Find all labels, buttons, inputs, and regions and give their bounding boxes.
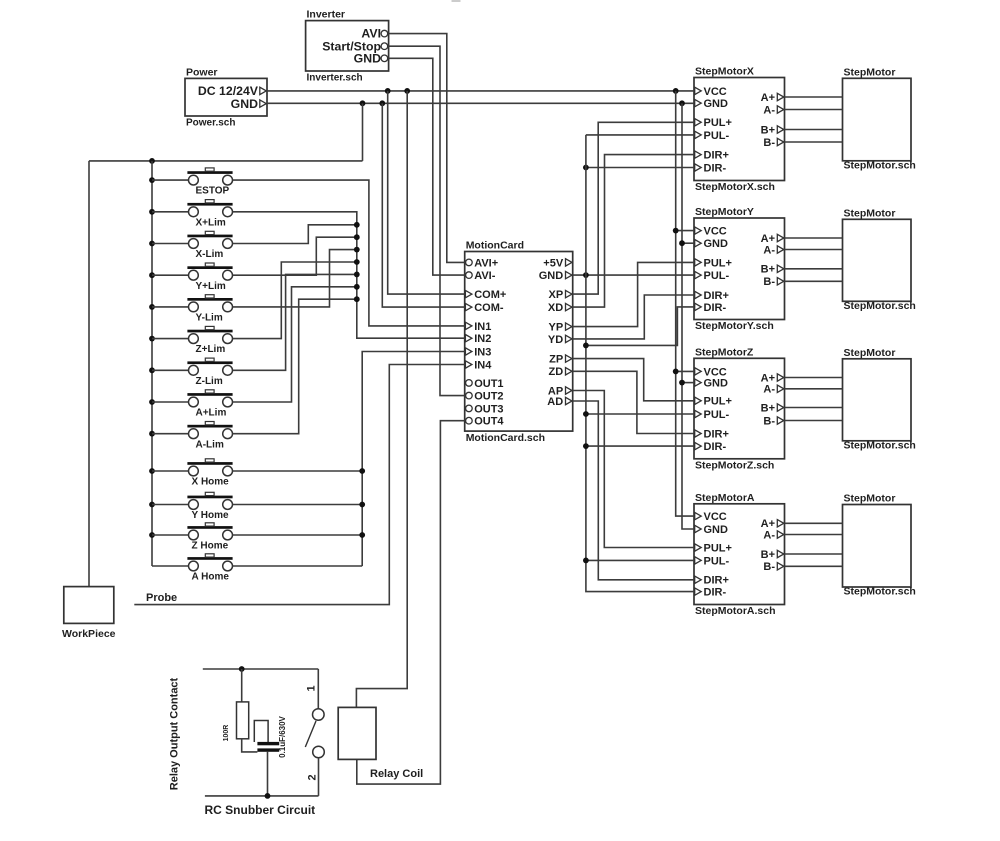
svg-text:A+: A+ xyxy=(761,233,775,245)
svg-text:AVI+: AVI+ xyxy=(474,257,498,269)
wire A Home left lead xyxy=(152,565,188,567)
stepper driver StepMotorY box xyxy=(694,218,785,320)
wire wire driverZ A- to motor xyxy=(785,388,843,390)
junction limit bus tap Z+Lim xyxy=(354,259,360,265)
wire A-Lim to limit bus xyxy=(233,299,357,434)
wire contact top rail xyxy=(203,668,318,670)
svg-text:StepMotor: StepMotor xyxy=(844,207,896,219)
svg-text:Y+Lim: Y+Lim xyxy=(196,281,226,292)
junction GND bus tap Y DIR- xyxy=(583,343,589,349)
wire ESTOP to IN1 xyxy=(233,180,465,326)
svg-text:OUT1: OUT1 xyxy=(474,378,503,390)
wire left drop to WorkPiece xyxy=(88,161,90,587)
svg-text:A-: A- xyxy=(763,244,775,256)
pin MotionCard pin IN1 xyxy=(465,322,472,329)
wire wire driverX A- to motor xyxy=(785,109,843,111)
wire A-Lim left lead xyxy=(152,433,188,435)
pin StepMotorA pin PUL+ xyxy=(695,544,702,551)
pin StepMotorZ pin GND xyxy=(695,379,702,386)
svg-text:AD: AD xyxy=(547,396,563,408)
svg-text:VCC: VCC xyxy=(704,226,727,238)
svg-text:Power: Power xyxy=(186,67,218,79)
wire Z+Lim to limit bus xyxy=(233,262,357,339)
junction GND bus tap Z PUL- xyxy=(583,411,589,417)
svg-text:Power.sch: Power.sch xyxy=(186,118,235,129)
junction GND bus tap A PUL- xyxy=(583,558,589,564)
wire X Home left lead xyxy=(152,470,188,472)
junction GND bus tap Z GND xyxy=(679,380,685,386)
wire Y Home left lead xyxy=(152,504,188,506)
pin MotionCard pin XD xyxy=(566,303,573,310)
wire GND to X PUL- xyxy=(586,134,694,136)
svg-text:StepMotor.sch: StepMotor.sch xyxy=(844,586,916,598)
wire capacitor bottom lead xyxy=(267,752,269,796)
wire resistor top lead xyxy=(241,669,243,702)
wire Z-Lim left lead xyxy=(152,369,188,371)
wire GND to Z DIR- xyxy=(586,445,694,447)
pin StepMotorX pin VCC xyxy=(695,87,702,94)
pin StepMotorY pin PUL+ xyxy=(695,259,702,266)
wire Y Home to home bus xyxy=(233,504,363,506)
junction left bus tap y=402.0 xyxy=(149,399,155,405)
relay coil box xyxy=(338,707,376,759)
wire GND to A PUL- xyxy=(586,559,694,561)
junction home bus tap Y Home xyxy=(359,502,365,508)
capacitor 0.1uF/630V body xyxy=(254,721,268,743)
pin StepMotorA pin PUL- xyxy=(695,557,702,564)
pin StepMotorZ pin DIR- xyxy=(695,442,702,449)
wire XD to X DIR+ xyxy=(573,155,694,308)
wire +V to relay coil top xyxy=(356,91,407,708)
svg-text:XD: XD xyxy=(548,302,563,314)
junction left bus tap y=211.8 xyxy=(149,209,155,215)
junction limit bus tap A+Lim xyxy=(354,284,360,290)
wire YD to Y DIR+ xyxy=(573,295,694,339)
wire contact lead 2 xyxy=(318,758,320,796)
switch X-Lim body xyxy=(189,239,199,249)
junction +V rail to COM+ xyxy=(385,88,391,94)
wire A+Lim left lead xyxy=(152,401,188,403)
junction GND bus tap Z DIR- xyxy=(583,443,589,449)
wire +V bus to A VCC xyxy=(676,91,694,516)
pin MotionCard pin ZP xyxy=(566,355,573,362)
top edge artifact xyxy=(452,0,461,2)
svg-text:Z-Lim: Z-Lim xyxy=(196,376,223,387)
wire ESTOP left lead xyxy=(152,179,188,181)
wire wire driverY B- to motor xyxy=(785,280,843,282)
svg-text:DIR-: DIR- xyxy=(704,302,727,314)
pin StepMotorY pin A+ xyxy=(777,234,784,241)
svg-text:0.1uF/630V: 0.1uF/630V xyxy=(278,715,287,757)
contact blade xyxy=(305,721,316,747)
wire A+Lim to limit bus xyxy=(233,287,357,402)
svg-text:PUL+: PUL+ xyxy=(704,396,732,408)
wire GND to Y DIR- xyxy=(586,307,694,346)
wire AVI to AVI+ xyxy=(389,34,465,263)
pin MotionCard pin YP xyxy=(566,323,573,330)
switch X Home body xyxy=(189,466,199,476)
pin StepMotorZ pin A- xyxy=(777,385,784,392)
wire Z Home left lead xyxy=(152,534,188,536)
wire YP to Y PUL+ xyxy=(573,262,694,326)
svg-text:AVI-: AVI- xyxy=(474,270,496,282)
wire wire driverY A+ to motor xyxy=(785,237,843,239)
pin MotionCard pin OUT3 xyxy=(466,405,473,412)
wire wire driverY B+ to motor xyxy=(785,268,843,270)
svg-text:A-: A- xyxy=(763,104,775,116)
svg-text:B-: B- xyxy=(763,415,775,427)
svg-text:DIR+: DIR+ xyxy=(704,290,729,302)
pin StepMotorZ pin A+ xyxy=(777,374,784,381)
svg-text:PUL+: PUL+ xyxy=(704,117,732,129)
pin MotionCard pin AD xyxy=(566,397,573,404)
pin MotionCard pin IN4 xyxy=(465,361,472,368)
svg-text:ESTOP: ESTOP xyxy=(196,186,230,197)
junction limit bus tap A-Lim xyxy=(354,296,360,302)
svg-text:StepMotorY: StepMotorY xyxy=(695,206,754,218)
svg-text:StepMotor: StepMotor xyxy=(844,66,896,78)
svg-text:A-: A- xyxy=(763,384,775,396)
svg-text:GND: GND xyxy=(704,524,729,536)
svg-text:GND: GND xyxy=(539,270,564,282)
svg-text:YP: YP xyxy=(549,322,564,334)
pin StepMotorY pin DIR- xyxy=(695,303,702,310)
wire wire driverY A- to motor xyxy=(785,249,843,251)
pin StepMotorY pin B- xyxy=(777,278,784,285)
pin MotionCard pin XP xyxy=(566,290,573,297)
svg-text:X+Lim: X+Lim xyxy=(196,217,226,228)
svg-text:DIR+: DIR+ xyxy=(704,428,729,440)
svg-text:COM-: COM- xyxy=(474,302,504,314)
pin StepMotorZ pin PUL- xyxy=(695,410,702,417)
switch Z-Lim body xyxy=(189,365,199,375)
svg-text:PUL-: PUL- xyxy=(704,409,730,421)
pin StepMotorX pin DIR+ xyxy=(695,151,702,158)
junction left bus tap y=471.0 xyxy=(149,468,155,474)
junction +V rail to relay coil xyxy=(404,88,410,94)
wire GND distribution bus / A DIR- xyxy=(586,135,694,592)
junction GND rail to COM- xyxy=(379,100,385,106)
pin StepMotorA pin B+ xyxy=(777,550,784,557)
switch Y+Lim body xyxy=(189,270,199,280)
pin MotionCard pin OUT4 xyxy=(466,417,473,424)
pin Inverter pin GND xyxy=(381,55,388,62)
svg-text:DIR+: DIR+ xyxy=(704,150,729,162)
svg-text:A-: A- xyxy=(763,529,775,541)
svg-text:B-: B- xyxy=(763,137,775,149)
pin StepMotorY pin GND xyxy=(695,240,702,247)
svg-text:IN2: IN2 xyxy=(474,333,491,345)
wire wire driverZ B+ to motor xyxy=(785,407,843,409)
wire wire driverA B- to motor xyxy=(785,565,843,567)
wire Z-Lim to limit bus xyxy=(233,274,357,370)
svg-text:StepMotorY.sch: StepMotorY.sch xyxy=(695,320,774,332)
junction left bus tap y=275.2 xyxy=(149,272,155,278)
wire contact bottom rail xyxy=(205,795,319,797)
svg-text:StepMotor: StepMotor xyxy=(844,347,896,359)
svg-text:PUL-: PUL- xyxy=(704,270,730,282)
pin StepMotorA pin B- xyxy=(777,563,784,570)
wire Y-Lim left lead xyxy=(152,306,188,308)
svg-text:Relay Output Contact: Relay Output Contact xyxy=(169,677,181,790)
wire wire driverZ B- to motor xyxy=(785,420,843,422)
svg-text:ZD: ZD xyxy=(549,366,564,378)
svg-text:StepMotorX.sch: StepMotorX.sch xyxy=(695,181,775,193)
svg-text:PUL-: PUL- xyxy=(704,555,730,567)
contact terminal circle 2 xyxy=(313,746,325,758)
svg-text:PUL-: PUL- xyxy=(704,130,730,142)
svg-text:IN1: IN1 xyxy=(474,321,491,333)
svg-text:WorkPiece: WorkPiece xyxy=(62,628,116,640)
pin StepMotorX pin PUL- xyxy=(695,131,702,138)
svg-text:MotionCard.sch: MotionCard.sch xyxy=(466,432,545,444)
svg-text:A+: A+ xyxy=(761,372,775,384)
wire GND to COM- xyxy=(382,103,464,307)
pin MotionCard pin COM+ xyxy=(465,290,472,297)
pin StepMotorX pin A- xyxy=(777,106,784,113)
svg-text:Probe: Probe xyxy=(146,592,177,604)
controller MotionCard box xyxy=(465,252,573,432)
svg-text:DIR-: DIR- xyxy=(704,441,727,453)
junction GND rail to GND bus xyxy=(679,100,685,106)
svg-text:StepMotorZ: StepMotorZ xyxy=(695,346,754,358)
pin StepMotorX pin GND xyxy=(695,99,702,106)
pin MotionCard pin COM- xyxy=(465,303,472,310)
svg-text:DIR-: DIR- xyxy=(704,162,727,174)
wire Y-Lim to limit bus xyxy=(233,250,357,307)
wire wire driverX B- to motor xyxy=(785,141,843,143)
wire X-Lim to limit bus xyxy=(233,225,357,244)
pin StepMotorA pin A- xyxy=(777,531,784,538)
motor StepMotor(Z) box xyxy=(843,359,912,441)
junction left bus tap y=504.5 xyxy=(149,502,155,508)
pin MotionCard pin OUT1 xyxy=(466,380,473,387)
junction +V bus tap Z VCC xyxy=(673,369,679,375)
pin Inverter pin Start/Stop xyxy=(381,43,388,50)
junction left bus tap y=306.9 xyxy=(149,304,155,310)
svg-text:StepMotorA.sch: StepMotorA.sch xyxy=(695,605,776,617)
pin MotionCard pin YD xyxy=(566,335,573,342)
svg-text:MotionCard: MotionCard xyxy=(466,240,524,252)
junction snubber top junction xyxy=(239,666,245,672)
inverter module Inverter box xyxy=(306,21,389,71)
switch A Home body xyxy=(189,561,199,571)
wire GND rail xyxy=(267,102,694,104)
stepper driver StepMotorX box xyxy=(694,78,785,181)
svg-text:A+: A+ xyxy=(761,518,775,530)
switch A+Lim body xyxy=(189,397,199,407)
junction +V rail to VCC bus xyxy=(673,88,679,94)
stepper driver StepMotorZ box xyxy=(694,358,785,459)
pin MotionCard pin OUT2 xyxy=(466,392,473,399)
wire AD to A DIR+ xyxy=(573,401,694,580)
svg-text:ZP: ZP xyxy=(549,354,563,366)
wire switch common rail xyxy=(89,160,363,162)
wire AP to A PUL+ xyxy=(573,391,694,548)
junction limit bus tap Y+Lim xyxy=(354,234,360,240)
svg-text:OUT4: OUT4 xyxy=(474,416,504,428)
junction left bus tap y=370.3 xyxy=(149,367,155,373)
pin StepMotorZ pin VCC xyxy=(695,368,702,375)
pin StepMotorX pin DIR- xyxy=(695,164,702,171)
svg-text:PUL+: PUL+ xyxy=(704,257,732,269)
junction home bus tap X Home xyxy=(359,468,365,474)
capacitor plate top xyxy=(257,742,279,745)
svg-text:StepMotor.sch: StepMotor.sch xyxy=(844,159,916,171)
svg-text:VCC: VCC xyxy=(704,86,727,98)
junction limit bus tap Z-Lim xyxy=(354,272,360,278)
junction limit bus tap Y-Lim xyxy=(354,247,360,253)
svg-text:B+: B+ xyxy=(761,549,775,561)
svg-text:OUT3: OUT3 xyxy=(474,403,503,415)
svg-text:RC Snubber Circuit: RC Snubber Circuit xyxy=(205,803,316,817)
junction GND rail to switch rail xyxy=(360,100,366,106)
junction left bus tap y=180.1 xyxy=(149,177,155,183)
junction +V bus tap Y VCC xyxy=(673,228,679,234)
pin StepMotorZ pin DIR+ xyxy=(695,430,702,437)
svg-text:A-Lim: A-Lim xyxy=(196,439,224,450)
svg-text:PUL+: PUL+ xyxy=(704,542,732,554)
wire Z+Lim left lead xyxy=(152,338,188,340)
svg-text:B-: B- xyxy=(763,561,775,573)
svg-text:Inverter: Inverter xyxy=(307,9,346,21)
wire inverter GND to AVI- xyxy=(389,58,465,275)
wire X-Lim left lead xyxy=(152,243,188,245)
switch A-Lim body xyxy=(189,429,199,439)
WorkPiece box xyxy=(64,587,114,624)
switch Z+Lim body xyxy=(189,334,199,344)
svg-text:GND: GND xyxy=(704,98,729,110)
pin StepMotorX pin B+ xyxy=(777,126,784,133)
wire wire driverX B+ to motor xyxy=(785,129,843,131)
svg-text:StepMotor.sch: StepMotor.sch xyxy=(844,300,916,312)
wire ZP to Z PUL+ xyxy=(573,359,694,401)
wire +V rail DC12/24V xyxy=(267,90,694,92)
svg-text:COM+: COM+ xyxy=(474,289,506,301)
wire Y+Lim left lead xyxy=(152,274,188,276)
junction left bus tap y=535.0 xyxy=(149,532,155,538)
motor StepMotor(X) box xyxy=(843,78,912,161)
svg-text:GND: GND xyxy=(704,378,729,390)
svg-text:A Home: A Home xyxy=(192,572,230,583)
svg-text:GND: GND xyxy=(231,97,258,111)
pin StepMotorA pin DIR- xyxy=(695,588,702,595)
wire X+Lim / limit bus to IN2 xyxy=(233,212,465,338)
wire Z Home to home bus xyxy=(233,534,363,536)
svg-text:B-: B- xyxy=(763,276,775,288)
wire XP to X PUL+ xyxy=(573,122,694,294)
pin StepMotorZ pin B- xyxy=(777,417,784,424)
pin StepMotorX pin PUL+ xyxy=(695,119,702,126)
svg-text:IN4: IN4 xyxy=(474,359,492,371)
pin StepMotorY pin VCC xyxy=(695,227,702,234)
svg-text:VCC: VCC xyxy=(704,511,727,523)
svg-text:GND: GND xyxy=(704,238,729,250)
svg-text:YD: YD xyxy=(548,334,563,346)
switch X+Lim body xyxy=(189,207,199,217)
svg-text:+5V: +5V xyxy=(543,257,564,269)
junction GND bus tap X DIR- xyxy=(583,165,589,171)
junction left bus tap y=243.5 xyxy=(149,241,155,247)
pin StepMotorX pin B- xyxy=(777,138,784,145)
pin MotionCard pin IN3 xyxy=(465,348,472,355)
svg-text:IN3: IN3 xyxy=(474,346,491,358)
svg-text:A+: A+ xyxy=(761,92,775,104)
svg-text:A+Lim: A+Lim xyxy=(196,408,227,419)
junction rail to left bus xyxy=(149,158,155,164)
svg-text:B+: B+ xyxy=(761,402,775,414)
wire A Home to home bus xyxy=(233,565,363,567)
svg-text:B+: B+ xyxy=(761,264,775,276)
pin StepMotorY pin DIR+ xyxy=(695,291,702,298)
pin MotionCard pin GND xyxy=(566,271,573,278)
svg-text:DIR+: DIR+ xyxy=(704,575,729,587)
svg-text:Z Home: Z Home xyxy=(192,541,229,552)
switch Z Home body xyxy=(189,530,199,540)
pin StepMotorA pin A+ xyxy=(777,520,784,527)
wire GND to Z PUL- xyxy=(586,413,694,415)
svg-text:StepMotorX: StepMotorX xyxy=(695,66,754,78)
wire GND drop to switch rail xyxy=(362,103,364,161)
wire +V to COM+ xyxy=(388,91,465,294)
svg-text:Relay Coil: Relay Coil xyxy=(370,768,423,780)
svg-text:VCC: VCC xyxy=(704,366,727,378)
svg-text:100R: 100R xyxy=(223,725,230,742)
wire Y+Lim to limit bus xyxy=(233,237,357,275)
wire X+Lim left lead xyxy=(152,211,188,213)
svg-text:XP: XP xyxy=(549,289,564,301)
pin Power pin DC 12/24V xyxy=(260,87,267,94)
switch Y Home body xyxy=(189,500,199,510)
junction left bus tap y=433.7 xyxy=(149,431,155,437)
junction snubber bottom junction xyxy=(265,793,271,799)
wire resistor bottom lead xyxy=(242,739,258,752)
wire contact lead 1 xyxy=(317,669,319,709)
wire GND to X DIR- xyxy=(586,167,694,169)
pin MotionCard pin AP xyxy=(566,387,573,394)
switch Y-Lim body xyxy=(189,302,199,312)
svg-text:StepMotor: StepMotor xyxy=(844,493,896,505)
pin StepMotorY pin B+ xyxy=(777,265,784,272)
svg-text:B+: B+ xyxy=(761,124,775,136)
pin StepMotorY pin A- xyxy=(777,246,784,253)
motor StepMotor(Y) box xyxy=(843,219,912,301)
svg-text:GND: GND xyxy=(354,51,381,65)
wire wire driverA A- to motor xyxy=(785,534,843,536)
svg-text:X Home: X Home xyxy=(192,477,230,488)
contact terminal circle 1 xyxy=(313,709,325,721)
wire wire driverZ A+ to motor xyxy=(785,377,843,379)
pin StepMotorA pin GND xyxy=(695,525,702,532)
pin MotionCard pin AVI+ xyxy=(466,259,473,266)
motor StepMotor(A) box xyxy=(843,505,912,588)
svg-text:Y-Lim: Y-Lim xyxy=(196,313,223,324)
pin MotionCard pin IN2 xyxy=(465,335,472,342)
resistor 100R xyxy=(237,702,249,739)
svg-text:X-Lim: X-Lim xyxy=(196,249,224,260)
svg-text:Y Home: Y Home xyxy=(192,510,229,521)
wire home bus to IN3 xyxy=(362,352,465,567)
junction home bus tap Z Home xyxy=(359,532,365,538)
junction left bus tap y=338.6 xyxy=(149,336,155,342)
wire X Home to home bus xyxy=(233,470,363,472)
wire +V bus to Y VCC xyxy=(676,230,694,232)
wire GND bus to Z GND xyxy=(682,382,694,384)
pin StepMotorY pin PUL- xyxy=(695,271,702,278)
pin StepMotorA pin VCC xyxy=(695,512,702,519)
pin Inverter pin AVI xyxy=(381,30,388,37)
pin StepMotorZ pin B+ xyxy=(777,404,784,411)
